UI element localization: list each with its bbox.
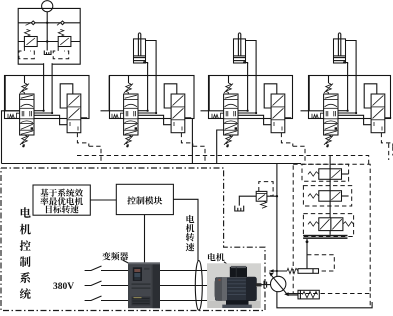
wire relief to riser xyxy=(267,195,277,197)
solenoid valve S3 xyxy=(319,218,343,231)
tank symbol relief xyxy=(235,206,244,211)
wire counterbalance top line xyxy=(18,22,80,24)
displacement control piston xyxy=(269,270,287,272)
wire S2-S3 xyxy=(329,201,331,218)
outer dashed box pump system xyxy=(293,164,370,293)
swash actuator cylinder xyxy=(298,290,319,299)
wire to S1 xyxy=(329,156,331,169)
drain box dashed right xyxy=(53,47,68,59)
relief valve left xyxy=(24,37,37,47)
pilot tail group3 xyxy=(293,146,305,163)
hydraulic motor circle xyxy=(42,1,53,12)
group 4 enclosure box xyxy=(309,76,391,119)
check valve right xyxy=(61,21,65,25)
wire relief to tank xyxy=(239,196,256,205)
wire pump bottom line xyxy=(277,292,372,308)
electric motor photo xyxy=(207,263,261,308)
spring relief main xyxy=(261,201,267,208)
S1 dashed box xyxy=(302,164,349,181)
group 1 enclosure box xyxy=(5,76,90,119)
motor enclosure box xyxy=(18,8,80,64)
three phase line 3 xyxy=(85,296,102,301)
wire motor drain xyxy=(46,12,48,51)
pump variable arrow xyxy=(270,274,287,295)
wire box1-box2 xyxy=(90,199,116,201)
wire group2 return xyxy=(191,118,193,163)
text motor control system vertical xyxy=(21,207,31,217)
wire manifold down xyxy=(306,239,308,269)
wire tank return bus xyxy=(2,163,302,165)
pilot tail group4 xyxy=(392,146,393,155)
wire control to VFD xyxy=(144,215,146,263)
text motor label xyxy=(208,253,216,261)
text motor speed vertical xyxy=(186,215,194,223)
spring relief left xyxy=(25,29,31,36)
pilot bus dashed xyxy=(77,156,369,165)
text VFD label xyxy=(102,252,110,260)
control module box xyxy=(116,184,173,214)
actuator rod xyxy=(288,293,299,295)
wire relief line xyxy=(18,41,80,43)
spring relief right xyxy=(58,29,64,36)
speed sensor ellipse xyxy=(195,261,202,311)
wire port stub group2 xyxy=(101,110,110,112)
relief valve main xyxy=(256,191,267,201)
wire port stub group4 xyxy=(301,110,310,112)
pilot dashed loop xyxy=(307,255,334,271)
VFD body xyxy=(128,262,160,308)
group 3 enclosure box xyxy=(209,76,293,119)
wire S3 down xyxy=(329,231,331,235)
pump xyxy=(271,276,286,291)
target speed box xyxy=(33,185,90,215)
manifold bar xyxy=(303,235,347,237)
drain box dashed left xyxy=(19,47,34,59)
wire motor shaft coupling xyxy=(261,284,271,286)
check valve left xyxy=(31,21,35,25)
S3 dashed box xyxy=(303,214,353,237)
node manifold xyxy=(306,240,309,243)
S2 dashed box xyxy=(303,186,351,206)
pilot box dashed relief xyxy=(259,182,273,196)
node motor center xyxy=(46,22,48,24)
pilot tail group2 xyxy=(193,146,205,163)
wire port stub group3 xyxy=(201,110,210,112)
group 2 enclosure box xyxy=(110,76,195,119)
wire S1-S2 xyxy=(329,179,331,190)
tank symbol xyxy=(44,51,51,55)
three phase line 2 xyxy=(85,281,102,286)
solenoid valve S1 xyxy=(319,169,342,180)
wire system left edge xyxy=(2,111,20,164)
svg-text:380V: 380V xyxy=(53,282,74,292)
solenoid valve S2 xyxy=(319,191,342,202)
three phase line 1 xyxy=(85,266,102,271)
wire group3 return xyxy=(217,130,224,164)
pilot tail group1 xyxy=(89,146,101,163)
wire supply riser top xyxy=(276,164,278,277)
wire speed feedback xyxy=(173,199,198,261)
relief valve right xyxy=(58,37,71,47)
